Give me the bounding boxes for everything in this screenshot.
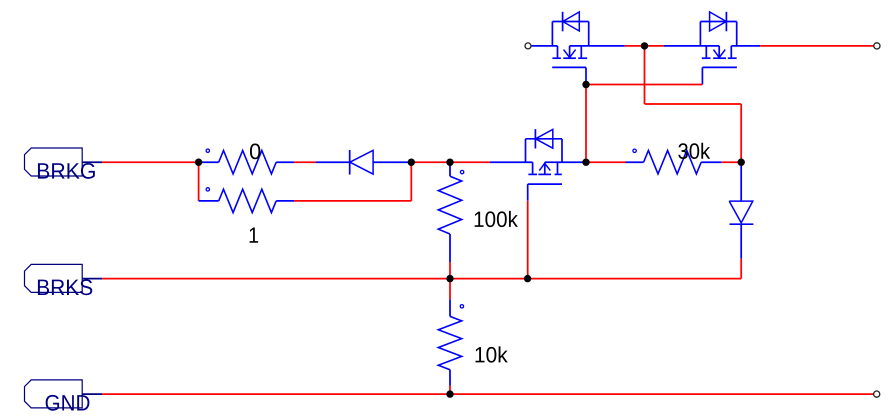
- resistor R0 pin-1 marker: [206, 149, 209, 152]
- transistor Q3 (n-MOSFET with body diode): [490, 129, 586, 201]
- resistor R10k bottom pin: [449, 370, 451, 386]
- wire GND row: [102, 393, 873, 395]
- resistor R30k pin-1 marker: [633, 149, 636, 152]
- resistor R10k pin-1 marker: [460, 305, 463, 308]
- open pin circle GND right: [874, 391, 880, 397]
- wire node B down to R1 row: [410, 162, 412, 201]
- diode D1 left pin: [316, 161, 350, 163]
- node E junction: [738, 159, 745, 166]
- resistor R1 body: [219, 189, 277, 212]
- resistor R1 pin-1 marker: [206, 188, 209, 191]
- port BRKG: [25, 148, 103, 179]
- wire gate net down to node D: [585, 85, 587, 163]
- node J junction (GND/10k): [446, 390, 453, 397]
- diode D2 top pin: [740, 162, 742, 201]
- label 1: [250, 228, 259, 243]
- diode D2 triangle: [729, 201, 753, 223]
- port GND: [25, 380, 103, 411]
- wire top rail right: [760, 45, 874, 47]
- wire node F down: [644, 46, 646, 104]
- wire BRKG port to node A: [102, 161, 198, 163]
- wire node B to node C: [411, 161, 450, 163]
- resistor R30k right pin: [701, 161, 721, 163]
- wire gate net horizontal: [586, 84, 702, 86]
- label 10k: [475, 346, 507, 362]
- resistor R100k bottom pin: [449, 234, 451, 262]
- resistor R10k top pin: [449, 299, 451, 316]
- wire R0 to D1: [294, 161, 316, 163]
- open pin circle top-left: [525, 43, 531, 49]
- wire BRKS row: [102, 278, 741, 280]
- wire BRKS to R10k: [449, 279, 451, 300]
- wire node A down to R1 row: [198, 162, 200, 201]
- wire down to node E: [740, 104, 742, 162]
- node I junction (BRKS/gate): [524, 275, 531, 282]
- transistor Q2 (p-MOSFET with body diode): [664, 12, 761, 85]
- label 30k: [678, 143, 710, 159]
- resistor R100k pin-1 marker: [460, 170, 463, 173]
- resistor R0 body: [219, 151, 277, 174]
- resistor R10k body: [438, 316, 461, 369]
- resistor R30k left pin: [626, 161, 644, 163]
- resistor R1 left pin: [199, 200, 219, 202]
- wire R100k to BRKS: [449, 262, 451, 279]
- resistor R0 left pin: [199, 161, 219, 163]
- resistor R1 right pin: [276, 200, 294, 202]
- label 100k: [475, 211, 518, 227]
- diode D2 bottom pin: [740, 224, 742, 259]
- wire R30k to node E: [721, 161, 741, 163]
- wire D2 to BRKS row: [740, 259, 742, 279]
- node B junction: [408, 159, 415, 166]
- resistor R100k top pin: [449, 162, 451, 176]
- wire across at y104: [645, 103, 742, 105]
- diode D2 cathode bar: [730, 223, 754, 225]
- node H junction (BRKS/100k/10k): [446, 275, 453, 282]
- diode D1 cathode bar: [349, 150, 351, 175]
- wire top rail mid: [625, 45, 664, 47]
- wire R10k to GND: [449, 386, 451, 395]
- resistor R0 right pin: [276, 161, 294, 163]
- open pin circle top-right: [874, 43, 880, 49]
- node D junction (Q3 drain): [582, 159, 589, 166]
- node C junction (100k top): [446, 159, 453, 166]
- diode D1 right pin: [373, 161, 411, 163]
- resistor R30k body: [644, 151, 702, 174]
- wire Q3 gate to BRKS: [527, 201, 529, 279]
- diode D1 triangle: [350, 150, 373, 174]
- label 0: [250, 143, 260, 159]
- transistor Q1 (p-MOSFET with body diode): [532, 12, 625, 85]
- node A junction: [195, 159, 202, 166]
- wire node D to R30k: [586, 161, 626, 163]
- resistor R100k body: [438, 176, 461, 234]
- node F junction (top rail): [641, 42, 648, 49]
- port BRKS: [25, 264, 103, 295]
- wire R1 to node B riser: [294, 200, 411, 202]
- node G junction (gate net): [582, 81, 589, 88]
- wire node C to Q3: [450, 161, 490, 163]
